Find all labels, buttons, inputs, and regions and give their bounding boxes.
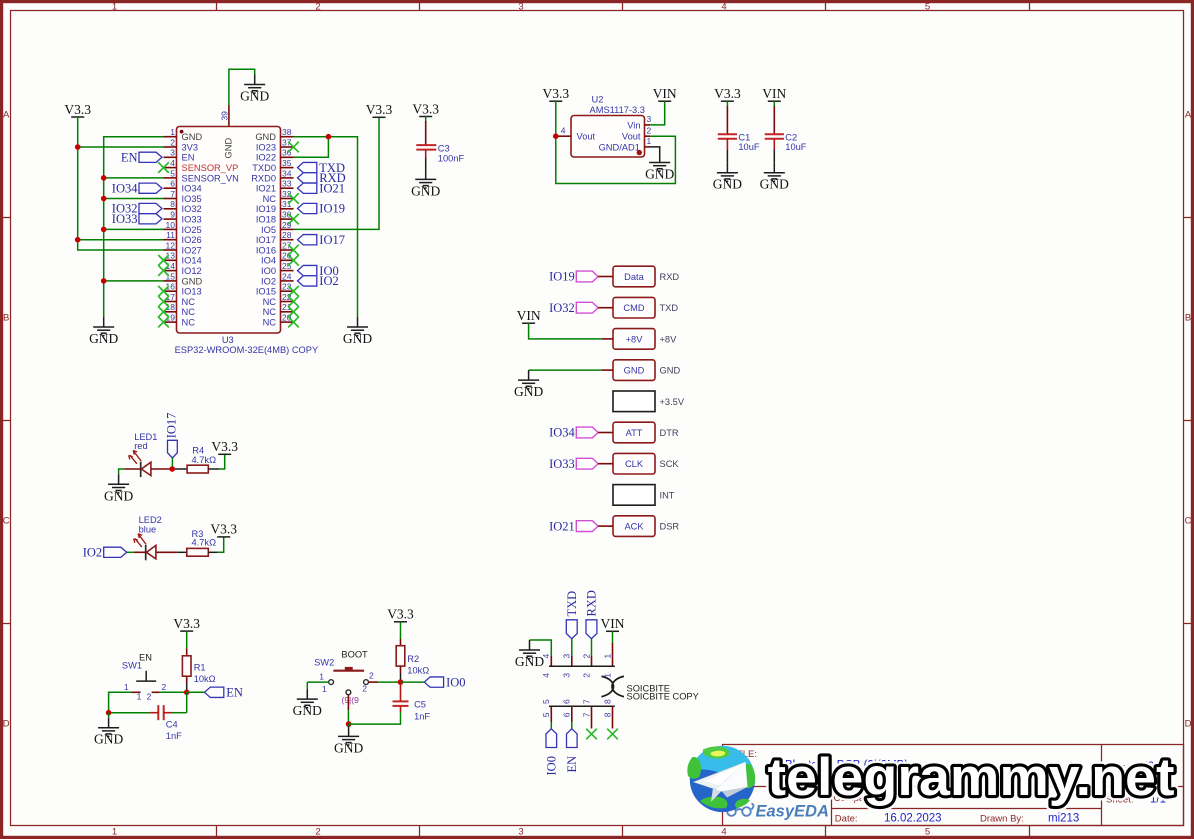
- ground at header: [514, 370, 543, 399]
- svg-text:3: 3: [170, 148, 175, 158]
- net port IO21: [549, 519, 598, 533]
- svg-text:8: 8: [170, 199, 175, 209]
- svg-text:IO0: IO0: [261, 266, 276, 276]
- wire port IO33 to box: [598, 463, 613, 465]
- switch SW2: [314, 649, 374, 704]
- svg-text:VIN: VIN: [653, 86, 677, 101]
- no-connect X pin 26: [288, 255, 299, 266]
- svg-text:24: 24: [282, 271, 292, 281]
- svg-text:BOOT: BOOT: [341, 649, 368, 659]
- watermark paper plane: [694, 762, 748, 802]
- svg-text:C1: C1: [738, 132, 750, 142]
- svg-text:U3: U3: [222, 335, 234, 345]
- net flag IO0 at SW2: [424, 675, 465, 689]
- no-connect X pin7: [586, 729, 597, 740]
- svg-text:2: 2: [369, 670, 374, 680]
- svg-text:GND: GND: [224, 138, 234, 159]
- svg-text:11: 11: [166, 230, 175, 240]
- wire U2 pin1 to ground: [650, 147, 660, 153]
- U3 pin 29 IO5: [261, 220, 294, 235]
- EasyEDA logo: [726, 803, 829, 821]
- svg-text:VIN: VIN: [601, 616, 625, 631]
- net flag IO0 vertical: [545, 729, 559, 776]
- svg-text:1: 1: [647, 136, 652, 146]
- frame column tick top 5: [1029, 2, 1031, 11]
- wire VIN to +8V box: [529, 323, 602, 339]
- svg-text:38: 38: [282, 127, 292, 137]
- wire VIN to pin1: [612, 631, 614, 643]
- U3 pin 8 IO32: [164, 199, 202, 214]
- svg-text:A: A: [3, 110, 10, 121]
- net port IO34: [549, 426, 598, 440]
- U3 pin 32 NC: [263, 189, 294, 204]
- svg-text:GND: GND: [713, 177, 742, 192]
- net flag RXD vertical: [585, 590, 599, 639]
- svg-text:32: 32: [282, 189, 292, 199]
- svg-text:red: red: [134, 441, 147, 451]
- svg-text:IO5: IO5: [261, 225, 276, 235]
- frame column tick bottom 4: [825, 826, 827, 838]
- svg-text:blue: blue: [139, 524, 157, 534]
- svg-text:+8V: +8V: [626, 334, 644, 344]
- wire C1 to ground: [726, 150, 728, 163]
- svg-text:C2: C2: [785, 132, 797, 142]
- wire V3.3 to C1: [726, 101, 728, 106]
- wire GND to GND box: [529, 369, 602, 371]
- svg-text:+3.5V: +3.5V: [660, 397, 685, 407]
- U3 pin 38 GND: [255, 127, 293, 142]
- U3 pin 28 IO17: [256, 230, 294, 245]
- U3 pin 9 IO33: [164, 210, 202, 225]
- svg-text:IO2: IO2: [261, 276, 276, 286]
- frame column tick top 1: [216, 2, 218, 11]
- svg-text:IO27: IO27: [182, 245, 202, 255]
- svg-text:V3.3: V3.3: [210, 522, 237, 537]
- capacitor C5: [393, 682, 431, 721]
- svg-text:GND: GND: [343, 331, 372, 346]
- svg-text:DSR: DSR: [660, 522, 680, 532]
- net flag IO2: [298, 274, 339, 288]
- junction GND rail pin 7: [101, 196, 107, 202]
- svg-text:GND: GND: [760, 177, 789, 192]
- svg-text:SOICBITE COPY: SOICBITE COPY: [627, 692, 699, 702]
- wire GND rail to U3 pin 10: [104, 228, 164, 230]
- svg-text:Data: Data: [624, 272, 644, 282]
- U3 pin 25 IO0: [261, 261, 294, 276]
- capacitor C3: [416, 144, 464, 164]
- wire node to R4: [175, 468, 187, 470]
- SOICBITE pin number 1: [602, 654, 612, 678]
- svg-text:V3.3: V3.3: [366, 102, 393, 117]
- svg-text:IO17: IO17: [319, 233, 345, 247]
- wire LED1 anode: [151, 468, 172, 470]
- svg-text:5: 5: [170, 168, 175, 178]
- wire IO2 to LED2: [127, 551, 134, 553]
- no-connect X pin 30: [288, 214, 299, 225]
- LED LED2: [134, 515, 162, 560]
- svg-text:IO2: IO2: [83, 546, 102, 560]
- svg-text:IO19: IO19: [549, 270, 575, 284]
- svg-text:TXD: TXD: [660, 303, 679, 313]
- svg-text:IO33: IO33: [112, 212, 138, 226]
- U2 pin 3 Vin: [627, 114, 651, 130]
- frame row tick left 2: [2, 623, 11, 625]
- svg-text:1nF: 1nF: [414, 711, 430, 721]
- svg-text:3: 3: [518, 826, 523, 837]
- svg-text:+8V: +8V: [660, 334, 678, 344]
- power VIN at U2: [653, 86, 677, 101]
- U2 pin 2 Vout: [622, 125, 652, 141]
- svg-text:C5: C5: [414, 700, 426, 710]
- power V3.3 at R4: [211, 439, 238, 454]
- svg-text:V3.3: V3.3: [412, 101, 439, 116]
- ground at LED1: [104, 474, 133, 503]
- svg-text:1: 1: [319, 671, 324, 681]
- svg-text:3V3: 3V3: [182, 142, 199, 152]
- wire GND rail to U3 pin 7: [104, 198, 164, 200]
- net flag TXD: [298, 161, 346, 175]
- svg-text:10kΩ: 10kΩ: [194, 674, 216, 684]
- svg-text:IO12: IO12: [182, 266, 202, 276]
- no-connect X pin 21: [288, 307, 299, 318]
- svg-text:1nF: 1nF: [166, 731, 182, 741]
- svg-text:ATT: ATT: [626, 428, 643, 438]
- wire IO0 node to flag: [401, 681, 425, 683]
- svg-text:2: 2: [147, 692, 152, 702]
- header box CMD: [613, 297, 655, 318]
- svg-text:GND: GND: [624, 366, 645, 376]
- capacitor C1: [718, 132, 760, 152]
- svg-text:VIN: VIN: [517, 308, 541, 323]
- U3 pin 6 IO34: [164, 179, 202, 194]
- svg-text:IO26: IO26: [182, 235, 202, 245]
- svg-text:GND: GND: [411, 183, 440, 198]
- svg-text:IO18: IO18: [256, 215, 276, 225]
- svg-text:GND: GND: [645, 167, 674, 182]
- power VIN at SOICBITE: [601, 616, 625, 631]
- svg-text:8: 8: [602, 712, 612, 717]
- wire GND to pin4: [530, 640, 552, 656]
- svg-text:TXD0: TXD0: [252, 163, 276, 173]
- capacitor C4: [150, 705, 182, 741]
- net flag EN vertical: [565, 729, 579, 773]
- no-connect X pin 22: [288, 296, 299, 307]
- wire port IO34 to box: [598, 432, 613, 434]
- no-connect X pin 27: [288, 245, 299, 256]
- U3 pin 11 IO26: [164, 230, 202, 245]
- svg-text:Date:: Date:: [835, 814, 858, 825]
- svg-text:3: 3: [562, 654, 572, 659]
- svg-text:3: 3: [562, 673, 572, 678]
- svg-text:2: 2: [581, 654, 591, 659]
- no-connect X pin 18: [158, 307, 169, 318]
- frame row tick right 2: [1184, 623, 1193, 625]
- svg-text:1: 1: [124, 682, 129, 692]
- svg-text:2: 2: [581, 673, 591, 678]
- svg-text:A: A: [1185, 110, 1192, 121]
- U3 pin 10 IO25: [164, 220, 202, 235]
- frame row tick right 1: [1184, 420, 1193, 422]
- net port IO32: [549, 301, 598, 315]
- svg-text:7: 7: [170, 189, 175, 199]
- svg-text:NC: NC: [263, 318, 277, 328]
- switch SW1: [122, 653, 167, 702]
- wire GND rail left: [104, 137, 164, 317]
- svg-text:D: D: [1185, 719, 1192, 730]
- wire R2 to IO0 node: [400, 666, 402, 673]
- svg-text:35: 35: [282, 158, 292, 168]
- no-connect X pin 4: [158, 162, 169, 173]
- svg-text:V3.3: V3.3: [211, 439, 238, 454]
- svg-text:IO17: IO17: [256, 235, 276, 245]
- U3 pin 21 NC: [263, 302, 294, 317]
- svg-text:IO21: IO21: [256, 184, 276, 194]
- svg-text:4: 4: [721, 1, 726, 12]
- net flag IO33: [112, 212, 162, 226]
- svg-text:9: 9: [170, 210, 175, 220]
- svg-text:B: B: [3, 313, 9, 324]
- power VIN above C2: [762, 86, 786, 101]
- svg-text:Vout: Vout: [622, 132, 641, 142]
- svg-text:GND: GND: [94, 732, 123, 747]
- header box ACK: [613, 516, 655, 537]
- no-connect X pin 16: [158, 286, 169, 297]
- wire SW1 pin2 to EN node: [160, 691, 187, 693]
- svg-text:2: 2: [647, 125, 652, 135]
- wire V3.3 to U3 pin2: [78, 146, 164, 148]
- ground below C2: [760, 163, 789, 192]
- svg-text:GND: GND: [182, 132, 203, 142]
- wire R3 to V3.3: [208, 551, 217, 553]
- svg-text:1: 1: [137, 692, 142, 702]
- svg-text:NC: NC: [263, 194, 277, 204]
- junction SW2 ground net: [346, 721, 352, 727]
- svg-text:Vin: Vin: [627, 120, 640, 130]
- svg-text:4: 4: [541, 673, 551, 678]
- U3 pin 30 IO18: [256, 210, 294, 225]
- svg-text:RXD: RXD: [585, 590, 599, 616]
- net flag IO21: [298, 181, 346, 195]
- svg-text:GND: GND: [89, 331, 118, 346]
- junction GND rail pin 5: [101, 175, 107, 181]
- svg-text:CMD: CMD: [623, 303, 644, 313]
- header box Data: [613, 266, 655, 287]
- svg-text:NC: NC: [182, 297, 196, 307]
- svg-text:IO34: IO34: [182, 184, 202, 194]
- svg-text:1: 1: [112, 1, 117, 12]
- wire TXD to pin3: [571, 639, 573, 656]
- power V3.3 at R2: [387, 607, 414, 622]
- wire port IO21 to box: [598, 525, 613, 527]
- power V3.3 at U2: [542, 86, 569, 101]
- wire C3 to ground: [425, 158, 427, 169]
- wire SW2 middle pin down: [347, 695, 349, 710]
- svg-text:NC: NC: [263, 307, 277, 317]
- svg-text:GND: GND: [334, 740, 363, 755]
- svg-text:37: 37: [282, 137, 292, 147]
- svg-text:3: 3: [518, 1, 523, 12]
- svg-text:IO0: IO0: [545, 756, 559, 775]
- wire C4 left to GND rail: [109, 712, 150, 714]
- svg-text:4: 4: [561, 125, 566, 135]
- svg-text:4: 4: [170, 158, 175, 168]
- frame column tick bottom 1: [216, 826, 218, 838]
- connector SOICBITE top row: [549, 665, 615, 667]
- no-connect X pin 32: [288, 193, 299, 204]
- power V3.3 at R1: [173, 616, 200, 631]
- svg-text:IO0: IO0: [446, 675, 465, 689]
- SOICBITE crossed-wire symbol: [602, 676, 625, 696]
- svg-text:6: 6: [562, 699, 572, 704]
- frame column tick top 2: [419, 2, 421, 11]
- svg-text:EN: EN: [182, 153, 195, 163]
- wire V3.3 to R1: [186, 631, 188, 648]
- U3 pin 2 3V3: [164, 137, 199, 152]
- U3 pin 1 GND: [164, 127, 203, 142]
- ground at U2: [645, 153, 674, 182]
- svg-text:IO13: IO13: [182, 287, 202, 297]
- SOICBITE pin number 4: [541, 654, 551, 678]
- svg-text:GND: GND: [104, 488, 133, 503]
- wire EN node to flag: [187, 691, 205, 693]
- svg-text:15: 15: [166, 271, 176, 281]
- svg-text:12: 12: [166, 240, 176, 250]
- svg-text:1: 1: [112, 826, 117, 837]
- ground below C1: [713, 163, 742, 192]
- wire LED1 cathode to ground: [124, 468, 140, 470]
- wire V3.3 rail left: [78, 117, 164, 250]
- header box INT (empty): [613, 485, 655, 506]
- svg-text:10uF: 10uF: [738, 142, 760, 152]
- svg-text:30: 30: [282, 210, 292, 220]
- svg-text:IO19: IO19: [256, 204, 276, 214]
- frame row tick left 1: [2, 420, 11, 422]
- SOICBITE pin number 6: [562, 699, 572, 717]
- svg-text:IO35: IO35: [182, 194, 202, 204]
- svg-text:IO25: IO25: [182, 225, 202, 235]
- net flag IO17 vertical: [165, 413, 179, 458]
- wire IO17 to node: [171, 458, 173, 469]
- U3 pin 39 GND (top): [219, 105, 233, 158]
- resistor R4: [187, 445, 216, 473]
- resistor R3: [187, 529, 216, 556]
- svg-text:34: 34: [282, 168, 292, 178]
- SOICBITE pin number 2: [581, 654, 591, 678]
- wire RXD to pin2: [591, 639, 593, 656]
- watermark text: [768, 748, 1175, 807]
- ground at SW1: [94, 718, 123, 747]
- capacitor C2: [765, 132, 807, 152]
- U3 pin 27 IO16: [256, 240, 294, 255]
- svg-text:2: 2: [315, 1, 320, 12]
- svg-text:CLK: CLK: [625, 459, 644, 469]
- ground at SOICBITE: [515, 640, 544, 669]
- header box ATT: [613, 422, 655, 443]
- no-connect X pin 23: [288, 286, 299, 297]
- svg-text:SCK: SCK: [660, 459, 680, 469]
- svg-text:TXD: TXD: [565, 591, 579, 617]
- U3 pin 15 GND: [164, 271, 203, 286]
- wire U2 pin2 Vout loop: [556, 136, 676, 183]
- connector SOICBITE bottom row: [549, 705, 615, 707]
- title block frame: [723, 745, 1184, 826]
- svg-text:ACK: ACK: [624, 522, 644, 532]
- net flag IO17: [298, 233, 346, 247]
- frame column tick bottom 2: [419, 826, 421, 838]
- ground below C3: [411, 169, 440, 198]
- ground above U3: [240, 75, 269, 104]
- ground below SW2: [334, 726, 363, 755]
- wire pin6 to EN flag: [571, 706, 573, 722]
- svg-text:B: B: [1185, 313, 1191, 324]
- svg-text:V3.3: V3.3: [64, 102, 91, 117]
- svg-text:R1: R1: [194, 662, 206, 672]
- svg-text:NC: NC: [182, 318, 196, 328]
- svg-text:IO34: IO34: [549, 426, 575, 440]
- net flag EN at SW1: [205, 686, 243, 700]
- svg-text:IO21: IO21: [319, 181, 345, 195]
- wire U3 pin39 to ground: [229, 69, 255, 105]
- svg-text:C4: C4: [166, 720, 178, 730]
- svg-text:NC: NC: [182, 307, 196, 317]
- SOICBITE pin number 7: [581, 699, 591, 717]
- svg-text:IO14: IO14: [182, 256, 202, 266]
- svg-text:IO33: IO33: [182, 215, 202, 225]
- svg-text:4.7kΩ: 4.7kΩ: [192, 538, 217, 548]
- svg-text:IO33: IO33: [549, 457, 575, 471]
- svg-text:INT: INT: [660, 490, 675, 500]
- wire SW2 pin1 to ground: [307, 681, 328, 683]
- junction GND rail pin 15: [101, 278, 107, 284]
- net flag IO19: [298, 202, 346, 216]
- junction EN node: [184, 690, 190, 696]
- wire branch to U3 pin36: [294, 137, 329, 158]
- header box CLK: [613, 453, 655, 474]
- net flag EN: [121, 151, 162, 165]
- junction V3.3 rail pin2: [75, 144, 81, 150]
- svg-text:V3.3: V3.3: [387, 607, 414, 622]
- wire to C5 bottom: [349, 712, 401, 724]
- svg-text:IO16: IO16: [256, 245, 276, 255]
- IC U3 ESP32-WROOM-32E body: [177, 127, 281, 334]
- svg-text:EN: EN: [121, 151, 138, 165]
- svg-text:GND/AD1: GND/AD1: [599, 142, 640, 152]
- svg-text:SW1: SW1: [122, 660, 142, 670]
- svg-text:EN: EN: [226, 686, 243, 700]
- svg-text:GND: GND: [240, 89, 269, 104]
- U3 pin 5 SENSOR_VN: [164, 168, 239, 183]
- wire EN node down to C4: [186, 692, 188, 712]
- svg-text:5: 5: [541, 712, 551, 717]
- SOICBITE pin number 8: [602, 699, 612, 717]
- power VIN at header: [517, 308, 541, 323]
- svg-text:IO32: IO32: [549, 301, 575, 315]
- svg-text:39: 39: [219, 111, 229, 121]
- wire pin8 stub: [612, 706, 614, 728]
- header box GND: [613, 360, 655, 381]
- svg-text:C3: C3: [438, 144, 450, 154]
- wire U3 pin29 IO5 to V3.3: [294, 117, 380, 229]
- ground below left rail: [89, 317, 118, 346]
- net flag TXD vertical: [565, 591, 579, 639]
- wire SW1 pin1 to GND rail: [109, 692, 132, 712]
- svg-text:6: 6: [170, 179, 175, 189]
- U3 pin 34 RXD0: [251, 168, 293, 183]
- svg-text:5: 5: [541, 699, 551, 704]
- wire V3.3 to C3: [425, 117, 427, 122]
- wire LED2 anode to R3: [156, 551, 177, 553]
- svg-text:GND: GND: [182, 276, 203, 286]
